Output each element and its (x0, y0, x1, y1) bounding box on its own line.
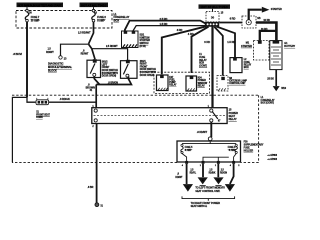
label 2.5 RD/BK (209, 169, 216, 174)
wire 6 RD right to 30a (219, 22, 242, 24)
svg-text:RD/BK: RD/BK (209, 173, 216, 175)
svg-text:2.5 RD/WT: 2.5 RD/WT (78, 30, 91, 34)
svg-text:(CONT): (CONT) (199, 65, 207, 67)
door switch S61/2 left front (87, 59, 101, 77)
supplementary dashed box (154, 72, 210, 93)
svg-text:FUSE 7: FUSE 7 (31, 15, 40, 19)
svg-text:MODULE/TERMINAL: MODULE/TERMINAL (48, 65, 73, 69)
terminals fuse holder bottom (185, 161, 235, 164)
svg-text:SB: SB (257, 17, 261, 20)
svg-text:8 AMP: 8 AMP (229, 149, 236, 152)
wire branch to diagnostic module (61, 44, 89, 55)
ground battery (triangle) (273, 86, 280, 91)
label .8 RD/WT (81, 49, 89, 55)
label 2.5 RD/GN (220, 169, 227, 174)
svg-text:DOOR SWITCH: DOOR SWITCH (140, 69, 157, 71)
fuse F30/5 (181, 144, 183, 153)
svg-text:EXTERIOR LAMP: EXTERIOR LAMP (229, 79, 247, 82)
big dashed boundary L1 continued (12, 95, 259, 162)
wire down to left door switch (89, 44, 95, 59)
svg-text:HOT AT ALL TIMES: HOT AT ALL TIMES (201, 5, 228, 9)
wire fuse output 3 (217, 164, 219, 177)
fuse F8 (92, 7, 95, 22)
bracket (182, 196, 235, 200)
label connector X1 (36, 112, 50, 120)
label K15 POWER SEAT RELAY (229, 108, 239, 122)
label .8 BROWN (86, 83, 95, 89)
wire down to relay K15 (95, 85, 97, 108)
box K27 (157, 75, 169, 91)
wire tick under arrow B (215, 185, 221, 187)
svg-text:8 AMP: 8 AMP (97, 19, 105, 23)
label FUSE 6 8 AMP (228, 147, 236, 152)
wire .8 BK/VI from fuse F7 down (26, 22, 28, 98)
wire corner to left edge (12, 97, 27, 162)
svg-text:W10: W10 (281, 87, 287, 90)
wire branch to right door switch (92, 49, 128, 61)
wire 6 RD main feed down to relay (211, 27, 213, 108)
wire fuse output 4 (230, 164, 234, 184)
svg-text:S61/2: S61/2 (102, 62, 109, 64)
wire 1.5 RD to box L2 (216, 27, 235, 58)
svg-text:CONN: CONN (36, 117, 43, 119)
wire 2.5 RD to ignition switch (125, 21, 206, 31)
header bar HOT AT ALL TIMES (right) (199, 4, 231, 9)
svg-text:.8 RD/GN: .8 RD/GN (60, 98, 70, 101)
svg-text:DOOR SWITCH: DOOR SWITCH (102, 70, 119, 72)
box exterior lamp control (dashed) (217, 76, 228, 91)
svg-text:BATTERY: BATTERY (284, 45, 295, 48)
svg-text:SUPPLEMENTARY: SUPPLEMENTARY (244, 144, 264, 147)
label M1 STARTER (241, 42, 252, 48)
svg-text:◄+SP906: ◄+SP906 (267, 158, 278, 161)
label .8 RD/WT (175, 174, 183, 179)
svg-text:S2/1: S2/1 (140, 35, 145, 37)
svg-text:BOX: BOX (244, 67, 249, 69)
svg-text:FUSE 5: FUSE 5 (185, 147, 193, 149)
svg-text:RD/GN: RD/GN (220, 173, 227, 175)
svg-text:S61/4: S61/4 (140, 60, 147, 63)
wire branch to starter (260, 31, 277, 40)
svg-text:FUSE: FUSE (199, 57, 205, 59)
svg-text:1.5 RD: 1.5 RD (227, 40, 235, 44)
node terminal 13 diagnostic (59, 56, 62, 59)
svg-text:DOOR OPEN): DOOR OPEN) (140, 75, 155, 77)
svg-text:FUSE 6: FUSE 6 (228, 147, 236, 149)
label L1 continued (261, 97, 275, 105)
box K24 (186, 76, 197, 91)
wire fuse F8 down (89, 22, 94, 44)
svg-text:RD/YL: RD/YL (190, 173, 197, 175)
svg-text:(R 16): (R 16) (140, 46, 146, 48)
svg-text:8 AMP: 8 AMP (185, 149, 192, 152)
label 1.5 RD/WT (46, 48, 54, 54)
arrow B (213, 177, 223, 184)
svg-text:SEAT CONTROL UNIT.: SEAT CONTROL UNIT. (195, 190, 220, 193)
ground point 31 (95, 203, 99, 207)
label S2/1 IGNITION STARTER SWITCH (140, 35, 151, 48)
label K24 relay (198, 77, 208, 88)
svg-text:BLOCK: BLOCK (48, 69, 57, 73)
svg-text:25 BK: 25 BK (267, 77, 274, 80)
hatch box K24 (187, 88, 194, 90)
svg-text:1.5 RD: 1.5 RD (160, 22, 168, 26)
svg-text:RELAY: RELAY (229, 117, 237, 121)
svg-text:RELAY: RELAY (198, 84, 206, 87)
svg-text:FUSE: FUSE (244, 148, 250, 150)
label L1 FUSE/RELAY BOX (114, 12, 130, 23)
svg-text:SWITCH: SWITCH (140, 43, 149, 45)
relay K15 power seat (long box) (92, 108, 227, 124)
hatch box exterior lamp (218, 88, 225, 90)
label FUSE 5 8 AMP (185, 147, 193, 152)
label to right front power seat switch (191, 202, 221, 208)
pin numbers (182, 164, 241, 167)
wire tick under arrow A (200, 185, 206, 187)
arrow C (183, 184, 193, 192)
svg-text:◄+SP806: ◄+SP806 (267, 154, 278, 157)
svg-text:2.5 RD/WT: 2.5 RD/WT (106, 45, 118, 48)
starter M1 (dashed box) (254, 40, 270, 60)
svg-text:CONTROL UNIT: CONTROL UNIT (229, 83, 246, 85)
label L2 FUSE RELAY BOX (244, 59, 252, 69)
label DIAGNOSTIC MODULE/TERMINAL BLOCK (48, 62, 73, 73)
svg-text:HOLDER: HOLDER (244, 151, 254, 153)
arrow D (225, 184, 235, 192)
wire relay output down (210, 122, 212, 137)
svg-text:4 RD: 4 RD (188, 32, 194, 36)
node terminal on fuse holder (208, 137, 212, 141)
label exterior lamp control unit (229, 78, 247, 85)
svg-text:RELAY: RELAY (169, 84, 177, 87)
wire door switch merge bar (94, 76, 131, 84)
node 30a junction (dashed box) (242, 16, 256, 28)
svg-text:4 RD: 4 RD (177, 28, 183, 32)
off-page arrow to starter (262, 7, 270, 13)
wire up to starter arrow (249, 10, 262, 20)
svg-text:RD/WT: RD/WT (175, 177, 183, 179)
svg-text:6 RD: 6 RD (230, 17, 236, 21)
wire battery to ground (275, 70, 277, 86)
svg-text:HOT AT ALL TIMES: HOT AT ALL TIMES (81, 3, 106, 7)
svg-text:BOX (CONT): BOX (CONT) (261, 103, 275, 105)
svg-text:2.5 RD: 2.5 RD (160, 17, 168, 21)
wire fuse output 1 (186, 164, 188, 184)
svg-text:LEFT: LEFT (102, 64, 108, 66)
svg-text:DIAGNOSTIC: DIAGNOSTIC (48, 62, 64, 66)
hatch box K27 (158, 88, 168, 90)
svg-text:.8 BR: .8 BR (87, 186, 93, 189)
label FUSE 7 30 AMP (29, 11, 40, 23)
svg-text:.8 BK/VI: .8 BK/VI (13, 52, 22, 56)
svg-text:STARTER: STARTER (241, 45, 252, 48)
svg-text:.8 BR/GN: .8 BR/GN (108, 82, 118, 85)
svg-text:RELAY: RELAY (199, 59, 207, 62)
arrow A (198, 177, 208, 184)
label K27 relay (169, 77, 177, 87)
svg-text:HOT IN RUN, BULB TEST AND STAR: HOT IN RUN, BULB TEST AND START (18, 4, 62, 8)
svg-text:BOX: BOX (114, 19, 120, 23)
inline connector X1 (27, 97, 96, 104)
svg-text:SEAT SWITCH.: SEAT SWITCH. (191, 205, 208, 208)
svg-text:(CLOSED WITH: (CLOSED WITH (102, 73, 119, 75)
fuse box L1 (dashed) (16, 11, 112, 29)
wire 1.5 RD to ignition switch (133, 26, 206, 31)
svg-text:FRONT: FRONT (102, 67, 110, 69)
wire fuse output 2 (202, 164, 204, 177)
label F30 SUPPLEMENTARY FUSE HOLDER (244, 142, 264, 153)
svg-text:30: 30 (211, 16, 215, 20)
label to left front memory seat control unit (195, 186, 225, 192)
svg-text:FUSE 8: FUSE 8 (97, 15, 106, 19)
label FUSE 8 8 AMP (96, 11, 107, 23)
label G1 BATTERY (284, 42, 295, 48)
wire to exterior lamp control (214, 27, 223, 77)
door switch S61/4 right front (121, 60, 138, 79)
fuse F7 (25, 7, 28, 22)
header bar HOT AT ALL TIMES (mid-left) (80, 3, 109, 8)
label S61/2 LEFT FRONT DOOR SWITCH (102, 62, 119, 78)
svg-text:16 RD: 16 RD (261, 28, 268, 31)
svg-text:6 RD: 6 RD (204, 40, 210, 44)
wire 4 RD to box K24 (192, 27, 209, 73)
svg-text:STARTER: STARTER (140, 39, 151, 42)
battery G1 (270, 40, 282, 69)
ignition starter switch S2/1 (122, 31, 139, 48)
box L2 fuse relay (230, 57, 242, 72)
svg-text:.8 RD/WT: .8 RD/WT (197, 131, 208, 134)
label 2.5 RD/YL (190, 169, 197, 174)
svg-text:RIGHT: RIGHT (140, 64, 148, 66)
svg-text:30 AMP: 30 AMP (31, 19, 40, 23)
supplementary fuse holder F30 (177, 141, 241, 162)
fuse F30/6 (235, 144, 237, 153)
svg-text:RD/WT: RD/WT (46, 51, 54, 54)
junction blob terminal 30 (205, 22, 219, 27)
svg-text:RELAY: RELAY (244, 63, 252, 66)
wire relay to ground (96, 124, 98, 203)
svg-text:FRONT SEAT: FRONT SEAT (36, 113, 50, 116)
header bar HOT IN RUN (left) (17, 3, 64, 8)
svg-text:FUSE/RELAY: FUSE/RELAY (114, 15, 130, 19)
svg-text:STARTER: STARTER (271, 8, 282, 11)
label F1 FUSE RELAY BOX (CONT) (199, 54, 207, 67)
svg-text:FUSE/RELAY: FUSE/RELAY (261, 99, 275, 102)
wire 4 RD to box K27 (162, 26, 207, 74)
wire 16 RD battery feed (256, 23, 276, 41)
svg-text:IGNITION: IGNITION (140, 37, 150, 39)
label S61/4 RIGHT FRONT DOOR SWITCH (140, 60, 157, 77)
svg-text:FRONT: FRONT (140, 66, 148, 68)
svg-text:DOOR OPEN): DOOR OPEN) (102, 76, 117, 78)
svg-text:BOX: BOX (199, 63, 204, 65)
node terminal 30 (dashed box) (206, 9, 224, 22)
svg-text:RD/WT: RD/WT (81, 53, 89, 56)
fuse holder internal wiring (182, 154, 236, 163)
